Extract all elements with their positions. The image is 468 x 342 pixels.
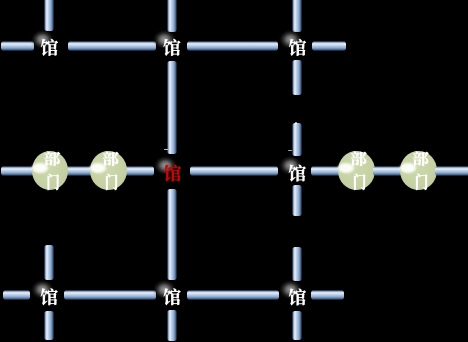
cap highlight speck at end of row1 right stub	[344, 44, 346, 46]
wire row3: N5 to N6	[64, 290, 156, 300]
label 部 of circle DEPT2 部门	[103, 151, 119, 166]
ellipse shadow blob of node CENTER 馆 (red, middle)	[153, 155, 178, 176]
wire row3: N6 to N7	[187, 290, 278, 300]
highlight sheen of circle DEPT4 部门	[400, 163, 416, 173]
label 部 of circle DEPT4 部门	[413, 151, 429, 166]
wire row2: DEPT4 to right edge (cap over DEPT4)	[435, 166, 468, 176]
label 馆 of node N7 馆 (bottom-right)	[289, 289, 306, 306]
highlight sheen of circle DEPT3 部门	[338, 163, 354, 173]
label 馆 of node N4 馆 (middle-right)	[289, 165, 306, 182]
wire row2: N4 toward DEPT3	[311, 166, 344, 176]
label 门 of circle DEPT1 部门	[48, 174, 59, 190]
ellipse shadow blob of node N1 馆 (top-left)	[30, 29, 55, 50]
ellipse shadow blob of node N6 馆 (bottom-middle)	[152, 279, 177, 300]
wire colC: stub below N7	[292, 311, 302, 341]
label 部 of circle DEPT1 部门	[44, 151, 60, 166]
wire row3: left edge to node N5	[3, 290, 31, 300]
label 馆 of node N6 馆 (bottom-middle)	[164, 288, 181, 305]
ellipse shadow blob of node N4 馆 (middle-right)	[278, 155, 303, 176]
label 馆 of node N5 馆 (bottom-left)	[41, 288, 58, 305]
wire row2: left edge to center node (under DEPT1, DEPT2)	[1, 166, 154, 176]
label 门 of circle DEPT2 部门	[106, 174, 117, 190]
label 馆 of node N3 馆 (top-right)	[289, 39, 306, 56]
label 馆 of node N2 馆 (top-middle)	[163, 39, 180, 56]
label 馆 of node N1 馆 (top-left)	[41, 39, 58, 56]
cap highlight dash left of colB cap above center node	[164, 149, 168, 150]
wire row1: right stub from N3	[312, 41, 346, 51]
circle DEPT2 部门 green circle	[90, 151, 127, 190]
wire colC: top edge down to N3	[292, 0, 302, 32]
label 馆 of node CENTER 馆 (red, middle)	[164, 165, 181, 182]
highlight sheen of circle DEPT2 部门	[90, 163, 106, 173]
wire colA: stub below N5	[44, 311, 54, 340]
label 门 of circle DEPT3 部门	[354, 174, 365, 190]
wire colC: N3 to hidden node	[292, 60, 302, 94]
ellipse shadow blob of node N5 馆 (bottom-left)	[30, 279, 55, 300]
wire colC: hidden node to N7	[292, 247, 302, 281]
wire colA: segment above N5	[44, 245, 54, 280]
wire colC: N4 to hidden node	[292, 185, 302, 216]
wire colB: center node to N6	[167, 189, 177, 281]
wire row1: left edge to node N1	[1, 41, 34, 51]
ellipse shadow blob of node N7 馆 (bottom-right)	[278, 279, 303, 300]
ellipse shadow blob of node N2 馆 (top-middle)	[152, 29, 177, 50]
wire row2: DEPT3 to DEPT4 (cap over DEPT3)	[373, 166, 402, 176]
wire colA: top edge down to N1	[44, 0, 54, 31]
ellipse shadow blob of node N3 馆 (top-right)	[278, 29, 303, 50]
circle DEPT1 部门 green circle	[32, 151, 69, 190]
circle DEPT4 部门 green circle	[400, 151, 437, 190]
wire row1: N2 to N3	[187, 41, 279, 51]
label 部 of circle DEPT3 部门	[351, 151, 367, 166]
wire row2: center node to N4	[190, 166, 279, 176]
wire colC: hidden node to N4	[292, 123, 302, 155]
wire colB: stub below N6	[167, 310, 177, 341]
highlight sheen of circle DEPT1 部门	[32, 163, 48, 173]
wire row3: right stub from N7	[311, 290, 344, 300]
cap highlight speck on colC segment top cap (above N4 hidden node)	[295, 122, 297, 124]
circle DEPT3 部门 green circle	[338, 151, 375, 190]
wire row1: N1 to N2	[68, 41, 157, 51]
cap highlight dash left of colC cap above N3	[288, 150, 292, 151]
label 门 of circle DEPT4 部门	[416, 174, 427, 190]
wire colB: N2 to center node	[167, 61, 177, 154]
wire colB: top edge down to N2	[167, 0, 177, 32]
